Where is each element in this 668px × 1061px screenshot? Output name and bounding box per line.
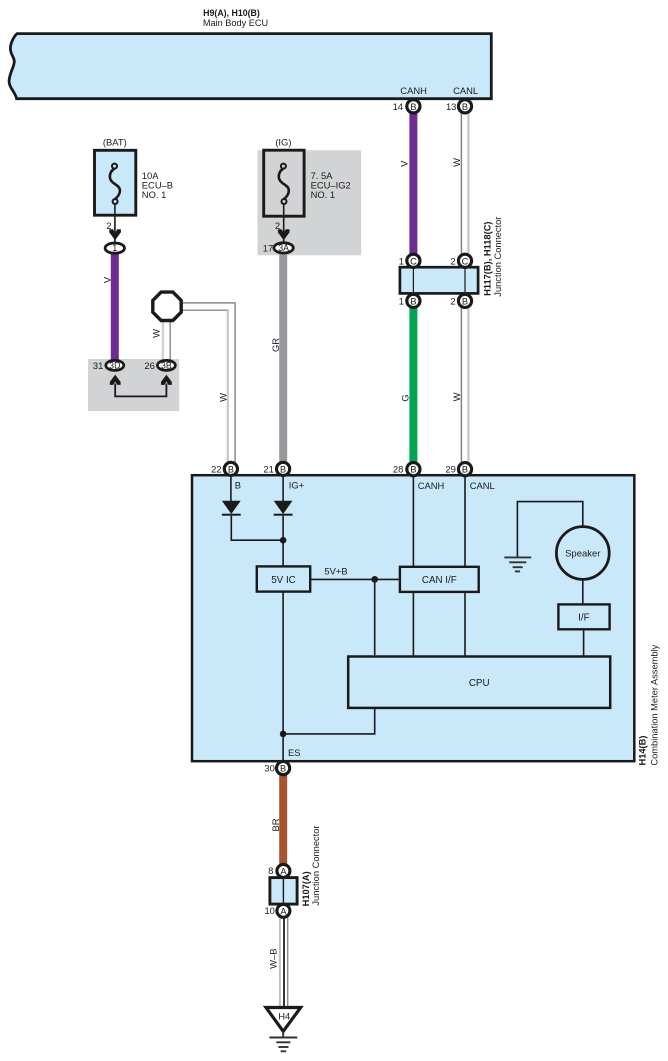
terminal arrow 2 (BAT) xyxy=(109,229,121,240)
svg-text:B: B xyxy=(235,479,241,490)
speaker xyxy=(556,527,609,580)
Main Body ECU block H9(A),H10(B) xyxy=(9,34,491,99)
Combination Meter Assembly box H14(B) xyxy=(192,475,634,761)
wire: 5V+B junction to CPU xyxy=(374,579,376,656)
svg-text:CANL: CANL xyxy=(470,480,495,491)
terminal arrow up at 3D xyxy=(110,375,121,385)
wire: speaker to internal ground xyxy=(517,502,582,557)
gray background panel 3D/3B xyxy=(88,359,179,411)
svg-text:H117(B), H118(C): H117(B), H118(C) xyxy=(483,221,493,295)
svg-text:21: 21 xyxy=(263,463,273,474)
pin 1 (B) junction bottom left xyxy=(399,294,420,307)
svg-text:B: B xyxy=(410,465,416,475)
svg-text:B: B xyxy=(280,764,286,774)
wire W: junction pin 2(B) to meter pin 29 CANL xyxy=(461,302,468,467)
wire: pin 28 CANH to CAN I/F xyxy=(412,471,414,567)
svg-text:ES: ES xyxy=(288,747,301,758)
diode D1 xyxy=(222,501,241,516)
svg-text:CPU: CPU xyxy=(469,678,490,689)
svg-text:8: 8 xyxy=(268,865,273,876)
svg-text:Combination Meter Assembly: Combination Meter Assembly xyxy=(649,644,659,765)
svg-text:17: 17 xyxy=(263,243,273,254)
ground H4 xyxy=(266,1008,301,1052)
svg-text:GR: GR xyxy=(270,338,281,352)
pin 29 (B) meter xyxy=(445,463,471,476)
svg-text:B: B xyxy=(228,464,234,474)
svg-text:CANH: CANH xyxy=(418,480,445,491)
wire: diode D2 through junction to 5V IC and down to pin 30 ES xyxy=(282,516,284,766)
fuse (BAT) 10A ECU-B NO.1 xyxy=(95,150,136,215)
svg-text:H14(B): H14(B) xyxy=(638,736,648,766)
svg-text:H107(A): H107(A) xyxy=(301,871,311,906)
svg-text:1: 1 xyxy=(399,296,404,307)
svg-text:1: 1 xyxy=(399,255,404,266)
junction dot ES xyxy=(280,731,287,738)
internal ground xyxy=(504,557,531,571)
octagon shielded junction xyxy=(153,292,181,320)
svg-text:5V+B: 5V+B xyxy=(324,566,347,577)
svg-text:CAN I/F: CAN I/F xyxy=(422,575,457,586)
svg-text:I/F: I/F xyxy=(578,613,589,624)
pin 1 (C) junction top left xyxy=(399,254,420,267)
svg-text:IG+: IG+ xyxy=(289,479,305,490)
pin 21 (B) meter xyxy=(263,462,289,475)
svg-text:(BAT): (BAT) xyxy=(103,137,127,148)
wire: diode D1 to junction xyxy=(231,516,283,541)
svg-text:B: B xyxy=(462,102,468,112)
wire: pin 29 CANL to CAN I/F xyxy=(464,471,466,567)
wire: pin 21 IG+ to diode D2 xyxy=(282,471,284,502)
svg-text:28: 28 xyxy=(393,464,403,475)
svg-text:W: W xyxy=(451,158,462,167)
wire: CPU bottom to ES junction xyxy=(284,708,375,734)
terminal arrow 2 (IG) xyxy=(278,229,290,240)
svg-text:Junction Connector: Junction Connector xyxy=(493,217,503,297)
wire GR: connector 3A to meter pin 21 xyxy=(279,250,287,467)
svg-text:W: W xyxy=(151,329,162,338)
svg-text:V: V xyxy=(398,160,409,167)
pin 2 (B) junction bottom right xyxy=(450,294,471,307)
svg-text:B: B xyxy=(410,102,416,112)
connector ellipse 3B with pin 26 xyxy=(144,360,175,371)
wire: speaker to I/F xyxy=(582,580,584,605)
wire V: battery fuse connector 1 to 3D xyxy=(111,250,119,363)
svg-text:H4: H4 xyxy=(278,1011,290,1022)
svg-text:Junction Connector: Junction Connector xyxy=(311,825,321,905)
terminal arrow up at 3B xyxy=(161,375,172,385)
svg-text:3D: 3D xyxy=(109,361,120,371)
wire: IG fuse to terminal xyxy=(283,205,285,244)
wire: I/F to CPU xyxy=(583,629,585,656)
wire: 5V IC to CAN I/F (5V+B) xyxy=(310,578,400,580)
svg-text:H9(A), H10(B): H9(A), H10(B) xyxy=(203,8,260,18)
pin 22 (B) meter xyxy=(211,462,237,475)
svg-text:Main Body ECU: Main Body ECU xyxy=(203,18,268,28)
svg-text:2: 2 xyxy=(275,220,280,231)
bracket wire between terminals 31(3D) and 26(3B) xyxy=(115,384,166,397)
wire W-B: junction pin 10(A) to ground H4 xyxy=(280,913,288,1007)
svg-text:CANL: CANL xyxy=(453,85,478,96)
svg-text:V: V xyxy=(101,276,112,283)
wire W: octagon junction to connector 3B xyxy=(163,318,170,363)
wire: BAT fuse to terminal xyxy=(114,204,116,243)
gray background panel (IG) xyxy=(258,150,362,255)
CAN I/F xyxy=(400,567,479,592)
wire W: ECU pin 13 CANL to junction pin 2(C) xyxy=(461,108,468,259)
svg-text:10AECU–BNO. 1: 10AECU–BNO. 1 xyxy=(142,170,173,200)
svg-text:5V IC: 5V IC xyxy=(271,575,296,586)
pin 30 (B) meter bottom xyxy=(264,762,289,775)
wire BR: meter pin 30 to junction pin 8(A) xyxy=(279,770,287,866)
svg-text:C: C xyxy=(462,256,469,266)
svg-text:B: B xyxy=(280,464,286,474)
svg-text:2: 2 xyxy=(450,296,455,307)
wire: CAN I/F to CPU (CANH side) xyxy=(412,592,414,657)
pin 2 (C) junction top right xyxy=(450,254,471,267)
svg-text:CANH: CANH xyxy=(400,85,427,96)
svg-text:BR: BR xyxy=(270,818,281,831)
junction connector H107(A) box xyxy=(270,878,297,905)
svg-text:G: G xyxy=(400,394,411,401)
I/F xyxy=(558,604,609,629)
svg-text:3A: 3A xyxy=(278,243,289,253)
svg-text:A: A xyxy=(280,906,287,916)
junction dot 5V+B xyxy=(371,576,378,583)
svg-text:10: 10 xyxy=(264,905,274,916)
svg-text:C: C xyxy=(410,256,417,266)
svg-text:Speaker: Speaker xyxy=(565,548,600,559)
connector ellipse 1 xyxy=(105,243,124,253)
svg-text:1: 1 xyxy=(112,243,117,253)
junction connector H117(B)/H118(C) box xyxy=(400,267,478,293)
diode D2 xyxy=(274,501,293,516)
svg-text:W–B: W–B xyxy=(268,949,279,969)
CPU xyxy=(348,657,610,708)
svg-text:3B: 3B xyxy=(161,361,172,371)
svg-text:14: 14 xyxy=(393,101,403,112)
svg-text:13: 13 xyxy=(446,101,456,112)
svg-text:W: W xyxy=(218,393,229,402)
pin 28 (B) meter xyxy=(393,463,420,476)
connector ellipse 3A with pin 17 xyxy=(263,243,294,254)
5V IC xyxy=(257,566,310,591)
pin 8 (A) junction H107 xyxy=(268,864,290,877)
svg-text:B: B xyxy=(410,296,416,306)
svg-text:B: B xyxy=(462,465,468,475)
svg-text:2: 2 xyxy=(450,255,455,266)
fuse (IG) 7.5A ECU-IG2 NO.1 xyxy=(264,150,304,216)
svg-text:W: W xyxy=(451,392,462,401)
wire V: ECU pin 14 CANH to junction pin 1(C) xyxy=(409,108,417,259)
svg-text:(IG): (IG) xyxy=(275,137,291,148)
svg-text:31: 31 xyxy=(93,360,103,371)
svg-text:29: 29 xyxy=(445,464,455,475)
junction dot diodes xyxy=(280,537,287,544)
pin 10 (A) junction H107 xyxy=(264,904,289,917)
wire W: octagon junction to meter pin 22 xyxy=(180,303,235,466)
svg-text:B: B xyxy=(462,296,468,306)
wire: CAN I/F to CPU (CANL side) xyxy=(464,592,466,657)
connector ellipse 3D with pin 31 xyxy=(93,360,124,371)
svg-text:2: 2 xyxy=(106,220,111,231)
wire G: junction pin 1(B) to meter pin 28 CANH xyxy=(409,302,417,467)
svg-text:30: 30 xyxy=(264,763,274,774)
svg-text:22: 22 xyxy=(211,463,221,474)
svg-text:A: A xyxy=(280,866,287,876)
pin 14 (B) xyxy=(393,100,420,113)
svg-text:26: 26 xyxy=(144,360,154,371)
pin 13 (B) xyxy=(446,100,472,113)
wire: pin 22 B to diode D1 xyxy=(230,471,232,502)
